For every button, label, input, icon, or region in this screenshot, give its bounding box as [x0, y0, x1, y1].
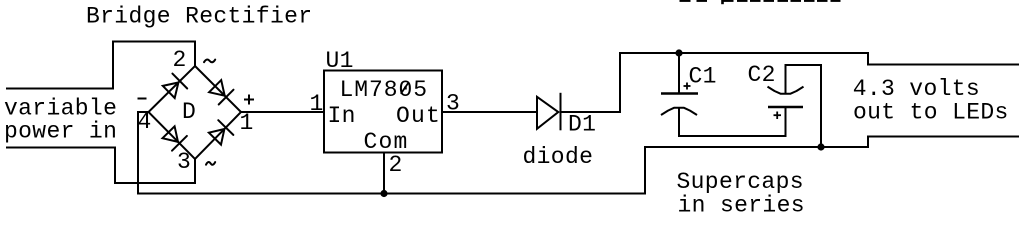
svg-text:U1: U1 — [326, 48, 354, 74]
wire input top to bridge AC pin 2 — [6, 42, 195, 89]
svg-text:1: 1 — [240, 110, 254, 136]
svg-text:Supercaps: Supercaps — [677, 169, 804, 195]
junction Com/ground — [380, 190, 387, 197]
wire C1 top lead — [678, 53, 680, 94]
svg-text:In: In — [328, 103, 356, 129]
bridge diode DTL (part of D) — [163, 74, 187, 98]
svg-text:LM7805: LM7805 — [340, 77, 429, 103]
node: 4.3 volts out to LEDs (output terminal) — [853, 76, 1009, 125]
C1 + sign — [684, 83, 691, 90]
wire C2 top lead via stub down to ground wire — [786, 65, 822, 147]
bridge - sign — [138, 98, 147, 100]
wire bridge - (pin4) to ground rail and out to right terminal — [138, 112, 1019, 194]
C2 + sign — [774, 112, 782, 120]
bridge + sign — [244, 95, 254, 105]
svg-text:power in: power in — [4, 118, 117, 144]
wire U1 Com down to ground rail — [383, 153, 385, 194]
svg-text:3: 3 — [177, 149, 191, 175]
bridge diode DBR (part of D) — [209, 120, 233, 144]
bridge rectifier D diamond body — [149, 66, 242, 159]
svg-text:C1: C1 — [689, 64, 717, 90]
svg-text:D1: D1 — [568, 112, 596, 138]
clipped label fragments at top edge — [680, 0, 841, 4]
label Supercaps in series — [677, 169, 805, 218]
svg-text:1: 1 — [310, 91, 324, 117]
svg-text:Bridge Rectifier: Bridge Rectifier — [86, 3, 312, 29]
svg-text:2: 2 — [173, 47, 187, 73]
junction top rail / C1 — [675, 49, 682, 56]
svg-text:D: D — [182, 99, 196, 125]
svg-text:4.3 volts: 4.3 volts — [853, 76, 980, 102]
svg-text:in series: in series — [678, 192, 805, 213]
wire input bottom to bridge AC pin 3 — [6, 148, 195, 184]
bridge diode DBL (part of D) — [163, 126, 187, 150]
svg-text:C2: C2 — [748, 62, 776, 88]
wire bridge + (pin1) to U1 In — [241, 111, 324, 113]
bridge diode DTR (part of D) — [209, 80, 233, 104]
wire U1 Out to D1 anode — [442, 111, 537, 113]
node: variable power in (input terminal) — [4, 96, 117, 145]
bridge ~ bottom — [206, 162, 215, 165]
slash of zero in LM7805 — [401, 83, 408, 94]
op-regulator U1 box — [324, 71, 442, 153]
svg-text:Out: Out — [396, 103, 441, 129]
svg-text:2: 2 — [389, 152, 403, 178]
capacitor C2 — [768, 87, 804, 107]
junction C2/ground wire — [817, 143, 824, 150]
wire C1 bottom to C2 bottom plate (series link) — [679, 107, 786, 136]
capacitor C1 — [661, 94, 698, 116]
wire D1 cathode up to top rail — [562, 53, 1019, 112]
svg-text:out to LEDs: out to LEDs — [853, 100, 1009, 126]
bridge ~ top — [204, 60, 215, 63]
diode D1 — [537, 93, 561, 131]
svg-text:diode: diode — [523, 144, 594, 170]
